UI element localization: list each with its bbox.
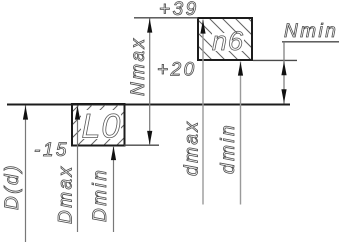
tolerance zone L0 hatch xyxy=(14,60,202,170)
Dmin dimension line xyxy=(113,146,115,232)
tolerance zone L0 border xyxy=(72,104,125,146)
svg-text:dmin: dmin xyxy=(218,123,239,174)
dmax dimension line xyxy=(202,20,204,205)
Nmin leader underline xyxy=(282,41,339,43)
svg-text:L0: L0 xyxy=(82,108,122,146)
+20 extension line xyxy=(253,59,297,61)
Nmin arrow up xyxy=(281,61,286,75)
Nmin arrow down xyxy=(281,89,286,103)
Nmin dimension line xyxy=(283,42,285,104)
svg-text:Dmin: Dmin xyxy=(90,168,111,222)
svg-text:D(d): D(d) xyxy=(2,163,23,210)
Nmax dimension line xyxy=(149,19,151,146)
svg-text:-15: -15 xyxy=(34,140,69,161)
+39 extension line xyxy=(134,17,198,19)
tolerance zone n6 text backing xyxy=(212,33,244,51)
Dmax arrow up xyxy=(75,106,80,120)
dmin arrow up xyxy=(238,62,243,76)
svg-text:dmax: dmax xyxy=(182,120,203,176)
Nmax arrow down xyxy=(147,131,152,145)
svg-text:+39: +39 xyxy=(159,0,199,20)
-15 extension line xyxy=(124,144,159,146)
D(d) dimension line xyxy=(25,106,27,243)
zero line (nominal size line) xyxy=(7,104,290,106)
svg-text:Nmax: Nmax xyxy=(128,36,149,96)
Nmax arrow up xyxy=(147,19,152,33)
dmax arrow up xyxy=(200,20,205,34)
tolerance zone L0 text backing xyxy=(81,110,121,139)
svg-text:Dmax: Dmax xyxy=(56,164,77,224)
Dmin arrow up xyxy=(111,146,116,160)
dmin dimension line xyxy=(240,62,242,205)
svg-text:n6: n6 xyxy=(212,26,244,56)
tolerance zone n6 border xyxy=(198,18,252,60)
Dmax dimension line xyxy=(77,106,79,233)
svg-text:+20: +20 xyxy=(157,60,197,81)
svg-text:Nmin: Nmin xyxy=(284,21,338,42)
tolerance zone n6 hatch xyxy=(139,0,310,80)
D(d) arrow up xyxy=(23,106,28,120)
